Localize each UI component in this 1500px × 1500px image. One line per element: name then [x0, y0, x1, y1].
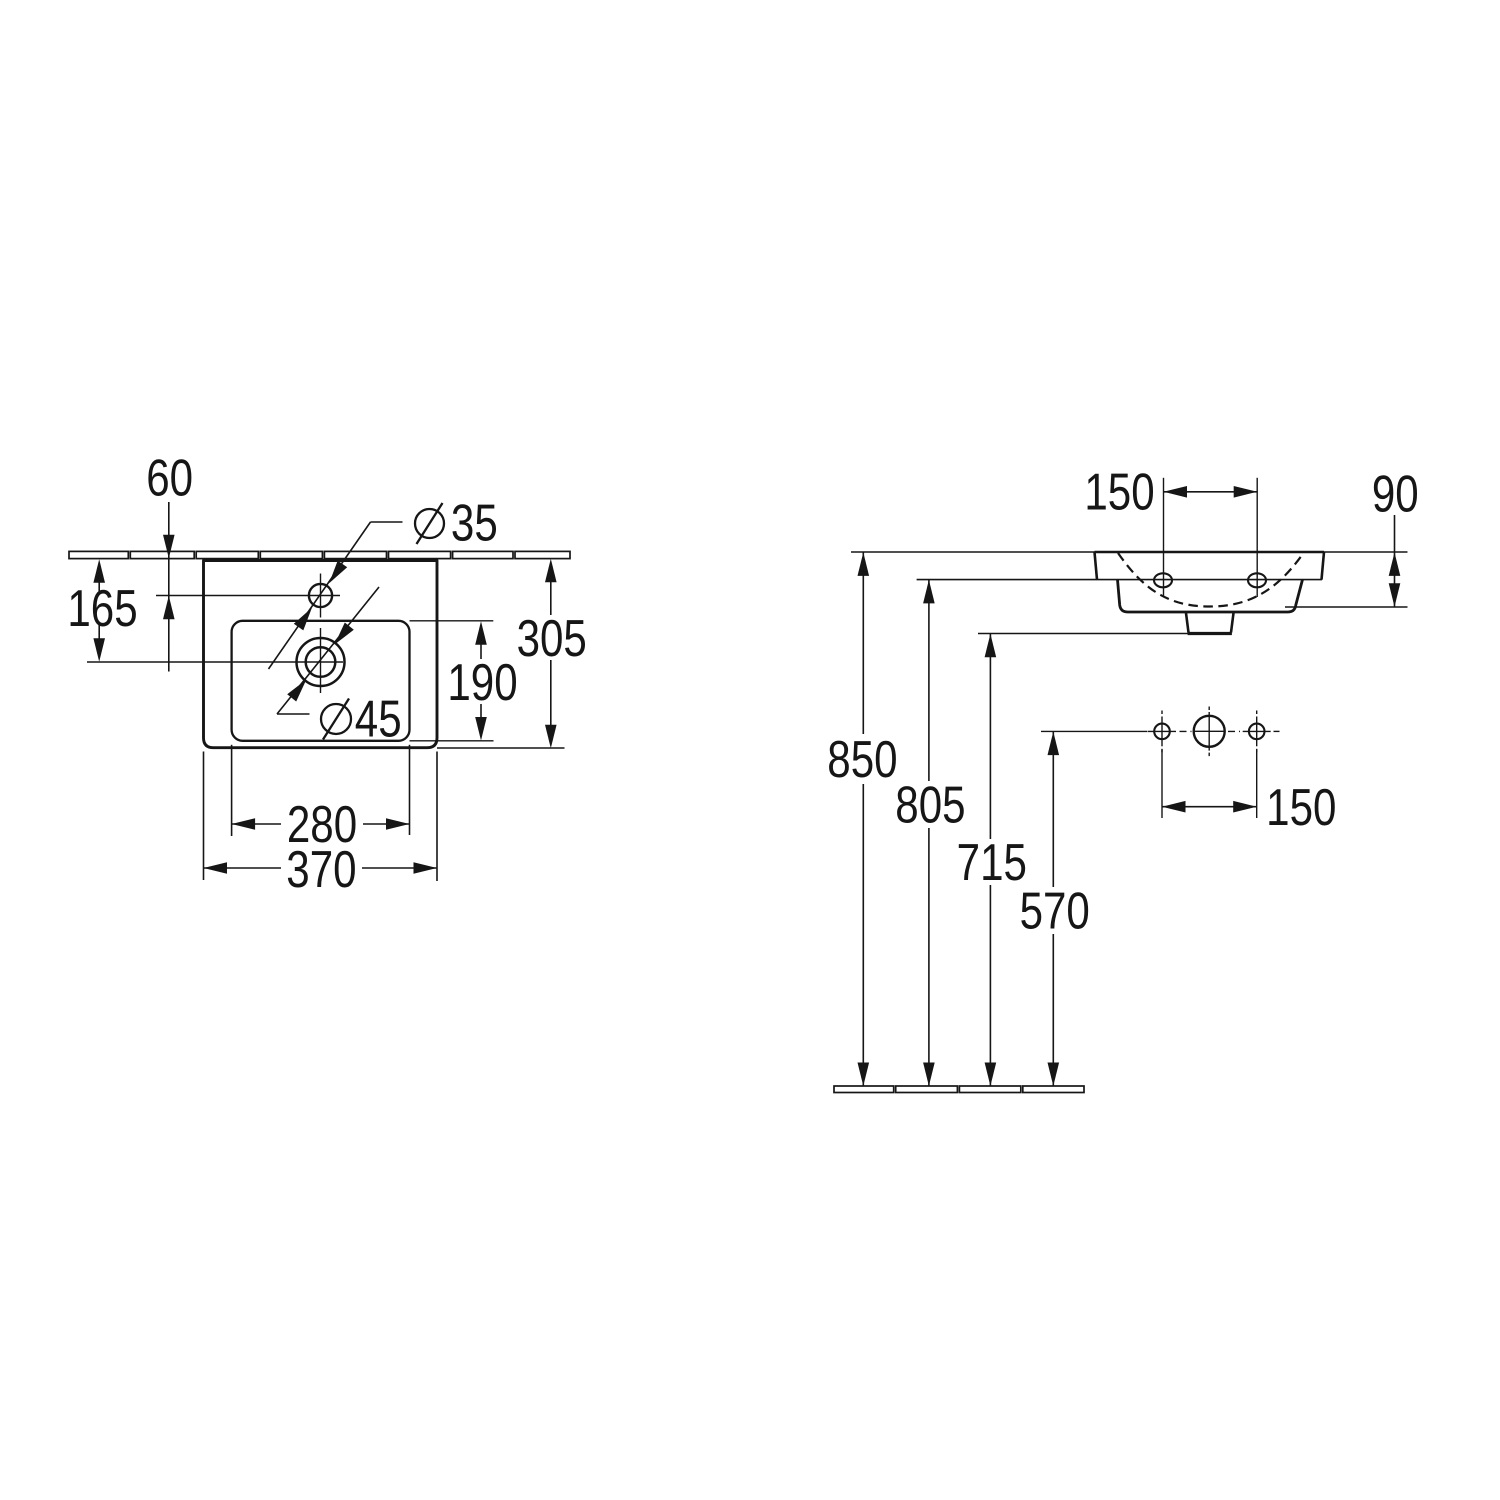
svg-text:35: 35: [451, 494, 498, 552]
svg-text:150: 150: [1084, 463, 1154, 521]
svg-text:60: 60: [146, 449, 193, 507]
svg-text:715: 715: [957, 834, 1027, 892]
svg-text:570: 570: [1020, 882, 1090, 940]
svg-text:370: 370: [286, 841, 356, 899]
svg-text:90: 90: [1372, 465, 1419, 523]
svg-text:805: 805: [895, 776, 965, 834]
svg-text:305: 305: [517, 610, 587, 668]
svg-text:190: 190: [447, 654, 517, 712]
svg-text:850: 850: [827, 731, 897, 789]
svg-text:150: 150: [1266, 779, 1336, 837]
svg-text:45: 45: [355, 690, 402, 748]
svg-text:165: 165: [67, 580, 137, 638]
